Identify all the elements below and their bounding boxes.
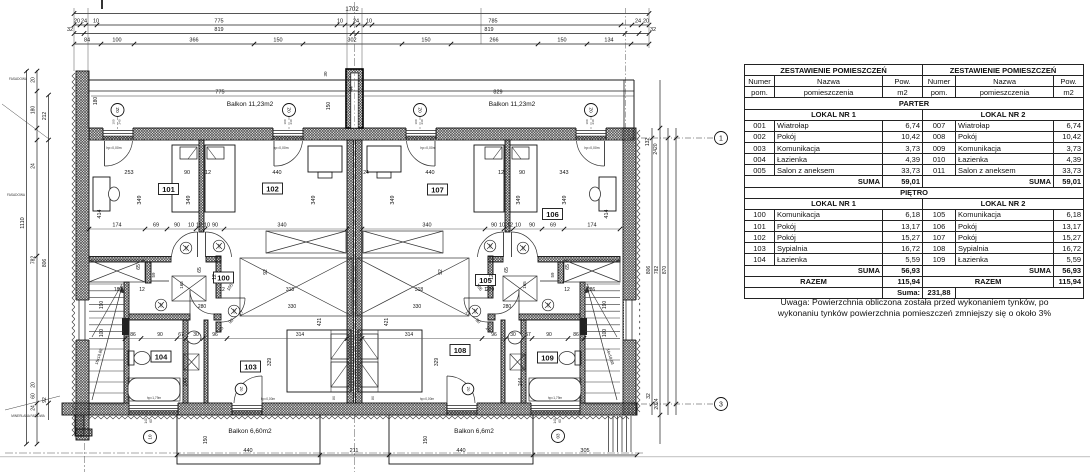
void boxes unit 2 [363,231,443,253]
svg-text:253: 253 [124,170,133,176]
svg-text:hp=1,79m: hp=1,79m [548,396,563,400]
svg-text:314: 314 [296,332,305,338]
svg-text:240: 240 [289,119,293,124]
top dimension line 1702 [74,13,649,15]
svg-text:12: 12 [219,287,225,293]
room 108 [450,345,470,356]
svg-text:806: 806 [646,266,652,275]
svg-text:24: 24 [31,405,37,411]
svg-text:67: 67 [525,332,531,338]
svg-text:785: 785 [488,19,497,25]
svg-text:107: 107 [431,186,444,195]
svg-text:hp=1,79m: hp=1,79m [147,396,162,400]
wardrobe room 102/107 unit 1 [308,146,342,172]
svg-text:240: 240 [420,119,424,124]
svg-text:Balkon 6,6m2: Balkon 6,6m2 [454,428,494,435]
top dimension line 2 [74,24,649,26]
svg-text:30: 30 [323,71,328,77]
svg-text:90: 90 [475,317,482,324]
svg-text:132: 132 [645,138,651,147]
svg-text:150: 150 [203,436,209,445]
svg-text:819: 819 [484,27,493,33]
svg-text:0Z: 0Z [115,107,120,113]
extension lines from top dims [87,8,89,128]
room 102 [263,183,283,194]
svg-text:329: 329 [434,358,440,367]
svg-text:302: 302 [347,38,356,44]
svg-text:hp=0,00m: hp=0,00m [273,146,288,150]
bathroom dim row y338 [125,338,347,340]
svg-text:12: 12 [196,223,202,229]
svg-text:30: 30 [193,332,199,338]
svg-text:280: 280 [198,304,207,310]
bathroom fixtures unit 2 [542,299,554,311]
svg-text:440: 440 [272,170,281,176]
svg-text:314: 314 [405,332,414,338]
top exterior wall [89,128,634,140]
svg-text:90: 90 [157,332,163,338]
lintel dashed line [89,139,634,141]
svg-text:0Z: 0Z [418,107,423,113]
svg-text:0Z: 0Z [589,107,594,113]
svg-text:12: 12 [564,287,570,293]
svg-text:318: 318 [286,287,295,293]
centreline party wall [354,2,356,68]
axis marker circle 1 [630,137,714,139]
svg-text:318: 318 [415,287,424,293]
svg-text:0Z: 0Z [238,386,243,391]
bathroom fixtures unit 1 [155,299,167,311]
svg-text:32: 32 [646,393,652,399]
svg-text:03: 03 [556,433,561,439]
svg-text:100: 100 [602,329,608,338]
svg-text:20: 20 [31,77,37,83]
svg-text:24: 24 [635,19,641,25]
room 104 [151,351,171,362]
svg-text:180: 180 [93,97,99,106]
right wall insulation zigzag [637,130,640,412]
svg-text:174: 174 [587,223,596,229]
leader lines left [2,104,49,139]
svg-text:65: 65 [504,267,510,273]
balcony doors unit 1 [104,141,106,166]
svg-text:hp=0,00m: hp=0,00m [261,397,276,401]
entry steps right [608,416,610,452]
svg-text:105: 105 [226,282,235,291]
svg-text:806: 806 [42,259,48,268]
svg-text:12: 12 [507,223,513,229]
svg-text:96: 96 [491,332,497,338]
svg-text:0Z: 0Z [465,386,470,391]
svg-text:782: 782 [654,266,660,275]
left exterior wall [76,71,89,440]
svg-text:60: 60 [31,393,37,399]
svg-text:0Z: 0Z [287,107,292,113]
svg-text:67: 67 [178,332,184,338]
svg-text:90: 90 [546,332,552,338]
svg-text:FASADOWA: FASADOWA [9,77,28,81]
svg-text:440: 440 [425,170,434,176]
svg-text:440: 440 [243,448,252,454]
interior door arcs unit 1 [197,232,199,257]
party wall [347,140,354,403]
window marker circles 02 [117,117,119,129]
bottom dim line [177,454,637,456]
svg-text:hp=0,00m: hp=0,00m [106,146,121,150]
room 100 [214,272,234,283]
svg-text:24: 24 [363,170,369,176]
svg-text:hp=0,00m: hp=0,00m [584,146,599,150]
svg-text:69: 69 [153,223,159,229]
svg-text:20: 20 [31,382,37,388]
bottom marker circles [144,431,157,444]
svg-text:100: 100 [112,38,121,44]
svg-text:343: 343 [559,170,568,176]
svg-text:20: 20 [74,19,80,25]
svg-text:10: 10 [366,19,372,25]
svg-text:150: 150 [421,38,430,44]
beds rooms upper unit 2 [510,145,537,212]
svg-text:3: 3 [719,402,723,409]
svg-text:340: 340 [277,223,286,229]
svg-text:0Z: 0Z [473,308,478,313]
svg-text:80: 80 [371,396,375,400]
interior door arcs unit 2 [511,232,513,257]
room 101 [159,184,179,195]
scan fold line bottom [0,456,1090,458]
svg-text:190: 190 [99,301,105,310]
svg-text:421: 421 [384,318,390,327]
svg-text:134: 134 [604,38,613,44]
svg-text:109: 109 [541,354,554,363]
room 105 [476,275,496,286]
svg-text:211: 211 [350,448,359,454]
svg-text:0Z: 0Z [184,245,189,250]
desk and chair unit 2 [599,177,616,211]
svg-text:349: 349 [186,195,192,204]
svg-text:32: 32 [650,27,656,33]
svg-text:775: 775 [215,90,224,96]
svg-text:349: 349 [311,195,317,204]
axis marker circle 3 [630,403,714,405]
svg-text:10: 10 [93,19,99,25]
svg-text:65: 65 [565,264,571,270]
svg-text:84: 84 [84,38,90,44]
svg-text:69: 69 [550,223,556,229]
room 103 [241,361,261,372]
balcony dim line 775/829 [91,95,347,97]
svg-text:1: 1 [719,136,723,143]
bottom wall insulation zigzag [89,416,629,419]
svg-text:414: 414 [604,209,610,218]
svg-text:Balkon 6,60m2: Balkon 6,60m2 [228,428,272,435]
room 107 [428,184,448,195]
bed room 103/108 unit 1 [287,330,351,392]
svg-text:340: 340 [422,223,431,229]
svg-text:10: 10 [204,223,210,229]
right exterior wall [623,128,636,415]
svg-text:190: 190 [602,301,608,310]
svg-text:103: 103 [244,363,257,372]
svg-text:10: 10 [337,19,343,25]
svg-text:10: 10 [515,223,521,229]
svg-text:90: 90 [491,223,497,229]
svg-text:870: 870 [662,266,668,275]
svg-text:12: 12 [489,274,495,280]
svg-text:60: 60 [149,419,153,423]
svg-text:829: 829 [493,90,502,96]
svg-text:140: 140 [553,418,557,424]
svg-text:FASADOWA: FASADOWA [7,193,26,197]
svg-text:212: 212 [42,112,48,121]
svg-text:20: 20 [643,19,649,25]
svg-text:279: 279 [486,287,495,293]
svg-text:782: 782 [31,256,37,265]
svg-text:150: 150 [423,436,429,445]
svg-text:32: 32 [67,27,73,33]
svg-text:106: 106 [546,210,559,219]
svg-text:421: 421 [317,318,323,327]
svg-text:330: 330 [288,304,297,310]
svg-text:330: 330 [413,304,422,310]
bottom-left terrace wall [75,415,84,436]
top dimension line 3 [74,33,649,35]
svg-text:hp=0,00m: hp=0,00m [420,397,435,401]
left dimension lines [26,70,28,444]
svg-text:90: 90 [184,170,190,176]
svg-text:280: 280 [503,304,512,310]
svg-text:86: 86 [573,332,579,338]
svg-text:349: 349 [562,195,568,204]
svg-text:92: 92 [263,269,269,275]
svg-text:65: 65 [197,267,203,273]
svg-text:0Z: 0Z [159,302,164,307]
svg-text:180: 180 [31,106,37,115]
svg-text:108: 108 [454,346,467,355]
svg-text:305: 305 [580,448,589,454]
svg-text:90: 90 [529,223,535,229]
wardrobe room 102/107 unit 2 [367,146,401,172]
svg-text:102: 102 [266,185,279,194]
svg-text:100: 100 [99,329,105,338]
svg-text:240: 240 [118,119,122,124]
svg-text:80: 80 [332,396,336,400]
bottom balcony right [389,415,533,464]
right wall window gap [624,300,639,340]
svg-text:104: 104 [155,353,168,362]
stair void unit 1 [89,260,145,282]
top dimension line 4 [74,43,649,45]
svg-text:hp=0,00m: hp=0,00m [420,146,435,150]
balcony right railing [623,80,625,128]
svg-text:349: 349 [516,195,522,204]
bottom exterior wall [62,403,637,415]
svg-text:65: 65 [136,264,142,270]
svg-text:10: 10 [148,434,153,440]
svg-text:90: 90 [174,223,180,229]
balcony top railing [89,79,634,81]
svg-text:100: 100 [283,119,287,124]
svg-text:414: 414 [97,209,103,218]
svg-text:266: 266 [489,38,498,44]
stairs unit 1 [89,283,124,285]
right dimension lines [651,128,653,415]
room 109 [538,352,558,363]
interior walls unit 1 [199,140,204,232]
svg-text:12: 12 [212,274,218,280]
room 106 [543,209,563,220]
svg-text:92: 92 [438,269,444,275]
svg-text:2420: 2420 [653,143,659,154]
svg-text:12: 12 [205,170,211,176]
svg-text:1110: 1110 [20,217,26,228]
svg-text:59: 59 [151,272,156,278]
svg-text:100: 100 [217,274,230,283]
svg-text:90: 90 [519,170,525,176]
mid dim row y229 [89,228,347,230]
svg-text:24: 24 [353,19,359,25]
svg-text:349: 349 [137,195,143,204]
svg-text:150: 150 [326,102,332,111]
scan mark top [101,0,103,9]
svg-text:100: 100 [414,119,418,124]
svg-text:0Z: 0Z [521,245,526,250]
beds rooms upper unit 1 [172,145,199,212]
stair void unit 2 [564,260,620,282]
svg-text:86: 86 [130,332,136,338]
svg-text:101: 101 [162,185,175,194]
svg-text:186: 186 [587,287,596,293]
bottom balcony left [177,415,320,464]
svg-text:366: 366 [189,38,198,44]
svg-text:24: 24 [81,19,87,25]
svg-text:96: 96 [212,332,218,338]
bottom datum dash line [5,452,645,454]
interior walls unit 2 [505,140,510,232]
svg-text:0Z: 0Z [546,302,551,307]
svg-text:59: 59 [550,272,555,278]
svg-text:186: 186 [114,287,123,293]
svg-text:Balkon 11,23m2: Balkon 11,23m2 [489,101,536,108]
svg-text:174: 174 [112,223,121,229]
svg-text:349: 349 [390,195,396,204]
svg-text:819: 819 [214,27,223,33]
bed room 103/108 unit 2 [358,330,422,392]
svg-text:12: 12 [498,170,504,176]
svg-text:244: 244 [518,378,524,387]
svg-text:150: 150 [273,38,282,44]
left wall insulation zigzag [72,73,75,436]
svg-text:165: 165 [179,281,184,289]
svg-text:440: 440 [456,448,465,454]
svg-text:0Z: 0Z [232,308,237,313]
chimney block at top [346,69,363,128]
svg-text:0Z: 0Z [217,243,222,248]
svg-text:240: 240 [591,119,595,124]
svg-text:30: 30 [510,332,516,338]
svg-text:165: 165 [522,281,527,289]
svg-text:Balkon 11,23m2: Balkon 11,23m2 [227,101,274,108]
svg-text:100: 100 [585,119,589,124]
svg-text:12: 12 [139,287,145,293]
svg-text:140: 140 [144,418,148,424]
left wall window gap [75,300,90,340]
svg-text:1702: 1702 [345,7,359,13]
svg-text:60: 60 [558,419,562,423]
svg-text:150: 150 [557,38,566,44]
svg-text:0Z: 0Z [488,243,493,248]
svg-text:10: 10 [188,223,194,229]
svg-text:244: 244 [183,378,189,387]
svg-text:90: 90 [212,223,218,229]
balcony doors unit 2 [604,141,606,166]
stairs unit 2 [585,283,620,285]
svg-text:24: 24 [31,163,37,169]
svg-text:329: 329 [267,358,273,367]
svg-text:MINERLANA FAS DWA: MINERLANA FAS DWA [11,414,45,418]
svg-text:775: 775 [214,19,223,25]
svg-text:100: 100 [112,119,116,124]
svg-text:10: 10 [499,223,505,229]
desk and chair unit 1 [93,177,110,211]
void boxes unit 1 [266,231,346,253]
